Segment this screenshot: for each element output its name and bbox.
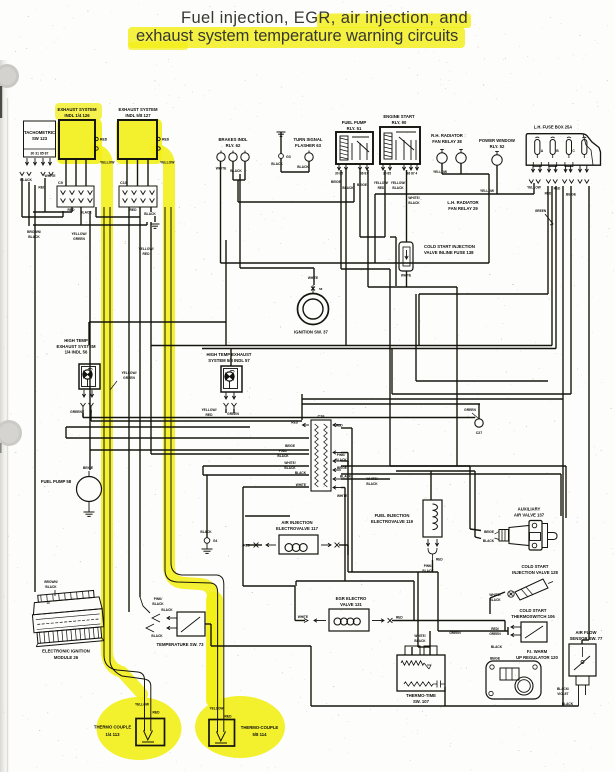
svg-text:RED: RED bbox=[225, 714, 233, 718]
svg-text:YELLOW: YELLOW bbox=[100, 161, 115, 165]
svg-text:THERMO-TIME: THERMO-TIME bbox=[406, 693, 436, 698]
svg-text:FUEL PUMP 58: FUEL PUMP 58 bbox=[41, 479, 72, 484]
svg-text:BLACK: BLACK bbox=[342, 186, 354, 190]
svg-text:BLACK: BLACK bbox=[366, 482, 378, 486]
svg-text:GREEN: GREEN bbox=[70, 410, 82, 414]
svg-text:5/8 114: 5/8 114 bbox=[253, 732, 268, 737]
svg-text:WHITE/: WHITE/ bbox=[414, 634, 425, 638]
svg-text:BEIGE: BEIGE bbox=[331, 180, 341, 184]
svg-text:RED: RED bbox=[130, 208, 138, 212]
svg-text:EXHAUST SYSTEM: EXHAUST SYSTEM bbox=[119, 107, 158, 112]
svg-text:EXHAUST SYSTEM: EXHAUST SYSTEM bbox=[58, 107, 97, 112]
svg-text:RLY. 62: RLY. 62 bbox=[226, 143, 241, 148]
svg-text:RLY. 52: RLY. 52 bbox=[490, 144, 505, 149]
svg-text:YELLOW/: YELLOW/ bbox=[374, 181, 389, 185]
svg-text:RED: RED bbox=[162, 138, 170, 142]
svg-text:UP REGULATOR 120: UP REGULATOR 120 bbox=[516, 655, 558, 660]
svg-text:THERMOSWITCH 106: THERMOSWITCH 106 bbox=[511, 614, 555, 619]
svg-text:BLACK: BLACK bbox=[152, 602, 164, 606]
svg-text:INDL 1/4 126: INDL 1/4 126 bbox=[64, 113, 90, 118]
svg-text:BLACK: BLACK bbox=[408, 201, 420, 205]
svg-text:FAN RELAY 29: FAN RELAY 29 bbox=[448, 206, 478, 211]
svg-text:AUXILIARY: AUXILIARY bbox=[518, 507, 541, 512]
svg-text:BLACK: BLACK bbox=[392, 186, 404, 190]
svg-text:SYSTEM 5/8 INDL 57: SYSTEM 5/8 INDL 57 bbox=[208, 358, 250, 363]
svg-text:BLACK: BLACK bbox=[230, 169, 242, 173]
svg-text:C9: C9 bbox=[58, 181, 63, 185]
svg-text:YELLOW: YELLOW bbox=[480, 189, 495, 193]
svg-text:86 87: 86 87 bbox=[360, 172, 368, 176]
svg-text:TACHOMETRIC: TACHOMETRIC bbox=[24, 130, 55, 135]
svg-text:R.H. RADIATOR: R.H. RADIATOR bbox=[431, 133, 463, 138]
svg-text:RED: RED bbox=[396, 616, 403, 620]
svg-text:L.H. RADIATOR: L.H. RADIATOR bbox=[447, 200, 478, 205]
svg-text:RED: RED bbox=[436, 558, 443, 562]
svg-text:COLD START INJECTION: COLD START INJECTION bbox=[424, 244, 475, 249]
svg-text:BLACK: BLACK bbox=[483, 539, 495, 543]
svg-text:1/4 113: 1/4 113 bbox=[106, 732, 121, 737]
svg-text:FAN RELAY 38: FAN RELAY 38 bbox=[432, 139, 462, 144]
svg-text:F.I. WARM: F.I. WARM bbox=[527, 649, 548, 654]
svg-text:INDL 5/8 127: INDL 5/8 127 bbox=[125, 113, 151, 118]
svg-text:BEIGE: BEIGE bbox=[285, 444, 295, 448]
svg-text:BLACK: BLACK bbox=[144, 212, 156, 216]
svg-text:COLD START: COLD START bbox=[519, 608, 546, 613]
svg-text:RED: RED bbox=[100, 138, 108, 142]
svg-text:GREEN: GREEN bbox=[535, 209, 547, 213]
svg-text:GREEN: GREEN bbox=[73, 237, 85, 241]
svg-text:RED: RED bbox=[143, 252, 151, 256]
svg-text:YELLOW/: YELLOW/ bbox=[71, 232, 86, 236]
svg-text:HIGH TEMP: HIGH TEMP bbox=[64, 338, 88, 343]
svg-text:WHITE/: WHITE/ bbox=[284, 461, 295, 465]
svg-text:FUEL INJECTION: FUEL INJECTION bbox=[375, 513, 410, 518]
svg-text:FLASHER 63: FLASHER 63 bbox=[295, 143, 322, 148]
svg-text:BROWN/: BROWN/ bbox=[27, 230, 41, 234]
svg-text:RED: RED bbox=[378, 186, 385, 190]
svg-text:SW. 107: SW. 107 bbox=[413, 699, 430, 704]
svg-text:THERMO COUPLE: THERMO COUPLE bbox=[94, 725, 131, 730]
svg-text:C10: C10 bbox=[120, 181, 127, 185]
svg-text:YELLOW: YELLOW bbox=[209, 707, 224, 711]
svg-text:86 87 4: 86 87 4 bbox=[407, 172, 418, 176]
svg-text:RLY. 51: RLY. 51 bbox=[347, 126, 362, 131]
svg-text:WHITE: WHITE bbox=[216, 167, 227, 171]
svg-text:WHITE: WHITE bbox=[298, 615, 308, 619]
svg-text:YELLOW: YELLOW bbox=[135, 703, 150, 707]
svg-text:WHITE: WHITE bbox=[337, 494, 347, 498]
svg-text:AIR INJECTION: AIR INJECTION bbox=[281, 520, 312, 525]
svg-text:BLACK: BLACK bbox=[340, 475, 352, 479]
svg-text:BLACK: BLACK bbox=[45, 585, 57, 589]
svg-text:30 85: 30 85 bbox=[383, 172, 391, 176]
svg-text:FUEL PUMP: FUEL PUMP bbox=[342, 120, 367, 125]
svg-text:BEIGE: BEIGE bbox=[490, 657, 500, 661]
svg-text:BLACK: BLACK bbox=[151, 634, 163, 638]
svg-text:GREEN: GREEN bbox=[489, 632, 501, 636]
svg-text:BROWN/: BROWN/ bbox=[44, 580, 57, 584]
svg-text:exhaust system temperature war: exhaust system temperature warning circu… bbox=[136, 27, 458, 45]
svg-text:10: 10 bbox=[46, 601, 50, 605]
svg-text:YELLOW: YELLOW bbox=[160, 161, 175, 165]
svg-text:THERMO-COUPLE: THERMO-COUPLE bbox=[241, 725, 279, 730]
svg-text:ELECTRONIC IGNITION: ELECTRONIC IGNITION bbox=[42, 649, 90, 654]
svg-text:PINK/: PINK/ bbox=[424, 564, 433, 568]
svg-text:BLACK: BLACK bbox=[297, 165, 309, 169]
svg-text:Fuel injection, EGR, air injec: Fuel injection, EGR, air injection, and bbox=[181, 9, 468, 27]
svg-text:INJECTION VALVE 128: INJECTION VALVE 128 bbox=[512, 570, 558, 575]
svg-text:YELLOW/: YELLOW/ bbox=[201, 408, 216, 412]
svg-text:WHITE: WHITE bbox=[308, 276, 318, 280]
svg-text:AIR FLOW: AIR FLOW bbox=[575, 630, 596, 635]
svg-text:C27: C27 bbox=[476, 431, 483, 435]
svg-text:COLD START: COLD START bbox=[521, 564, 548, 569]
svg-text:VALVE INLINE FUSE 138: VALVE INLINE FUSE 138 bbox=[424, 250, 474, 255]
svg-text:ELECTROVALVE 117: ELECTROVALVE 117 bbox=[276, 526, 319, 531]
svg-text:RED: RED bbox=[554, 187, 561, 191]
svg-text:TURN SIGNAL: TURN SIGNAL bbox=[293, 137, 322, 142]
svg-text:PINK/: PINK/ bbox=[337, 453, 346, 457]
svg-text:BLACK: BLACK bbox=[161, 608, 173, 612]
svg-text:BLACK: BLACK bbox=[491, 645, 503, 649]
svg-text:WHITE: WHITE bbox=[45, 174, 57, 178]
svg-text:RED: RED bbox=[153, 711, 161, 715]
svg-text:TEMPERATURE SW. 73: TEMPERATURE SW. 73 bbox=[157, 642, 205, 647]
svg-text:58: 58 bbox=[319, 287, 323, 291]
svg-text:G4: G4 bbox=[213, 539, 217, 543]
svg-text:G3: G3 bbox=[286, 155, 291, 159]
svg-text:RLY. 90: RLY. 90 bbox=[392, 120, 407, 125]
svg-text:VALVE 131: VALVE 131 bbox=[340, 602, 362, 607]
svg-text:POWER WINDOW: POWER WINDOW bbox=[479, 138, 515, 143]
svg-text:EGR ELECTRO: EGR ELECTRO bbox=[336, 596, 367, 601]
svg-text:SW 123: SW 123 bbox=[32, 136, 48, 141]
svg-text:RED: RED bbox=[336, 424, 343, 428]
svg-text:L.H. FUSE BOX 25A: L.H. FUSE BOX 25A bbox=[534, 125, 572, 130]
svg-text:HIGH TEMP EXHAUST: HIGH TEMP EXHAUST bbox=[206, 352, 251, 357]
svg-text:RED: RED bbox=[206, 413, 214, 417]
svg-text:ELECTROVALVE 119: ELECTROVALVE 119 bbox=[371, 519, 414, 524]
svg-text:1/4 INDL 56: 1/4 INDL 56 bbox=[65, 350, 88, 355]
svg-text:ENGINE START: ENGINE START bbox=[383, 114, 415, 119]
svg-text:BEIGE: BEIGE bbox=[83, 466, 94, 470]
svg-text:BLACK: BLACK bbox=[28, 235, 40, 239]
svg-text:GREEN: GREEN bbox=[464, 408, 476, 412]
svg-text:WHITE/: WHITE/ bbox=[408, 196, 419, 200]
svg-text:MODULE 26: MODULE 26 bbox=[54, 655, 79, 660]
svg-text:BEIGE: BEIGE bbox=[357, 183, 367, 187]
svg-text:30 31 85 87: 30 31 85 87 bbox=[31, 152, 49, 156]
svg-text:BEIGE: BEIGE bbox=[484, 530, 494, 534]
svg-text:YELLOW/: YELLOW/ bbox=[391, 181, 406, 185]
svg-text:30 85: 30 85 bbox=[335, 172, 343, 176]
svg-text:PINK/: PINK/ bbox=[154, 597, 163, 601]
svg-text:BLACK: BLACK bbox=[414, 639, 426, 643]
svg-text:IGNITION SW. 37: IGNITION SW. 37 bbox=[294, 330, 328, 335]
svg-text:BRAKES INDL: BRAKES INDL bbox=[218, 137, 247, 142]
svg-text:AIR VALVE 137: AIR VALVE 137 bbox=[514, 512, 545, 517]
svg-text:BLACK: BLACK bbox=[489, 598, 501, 602]
